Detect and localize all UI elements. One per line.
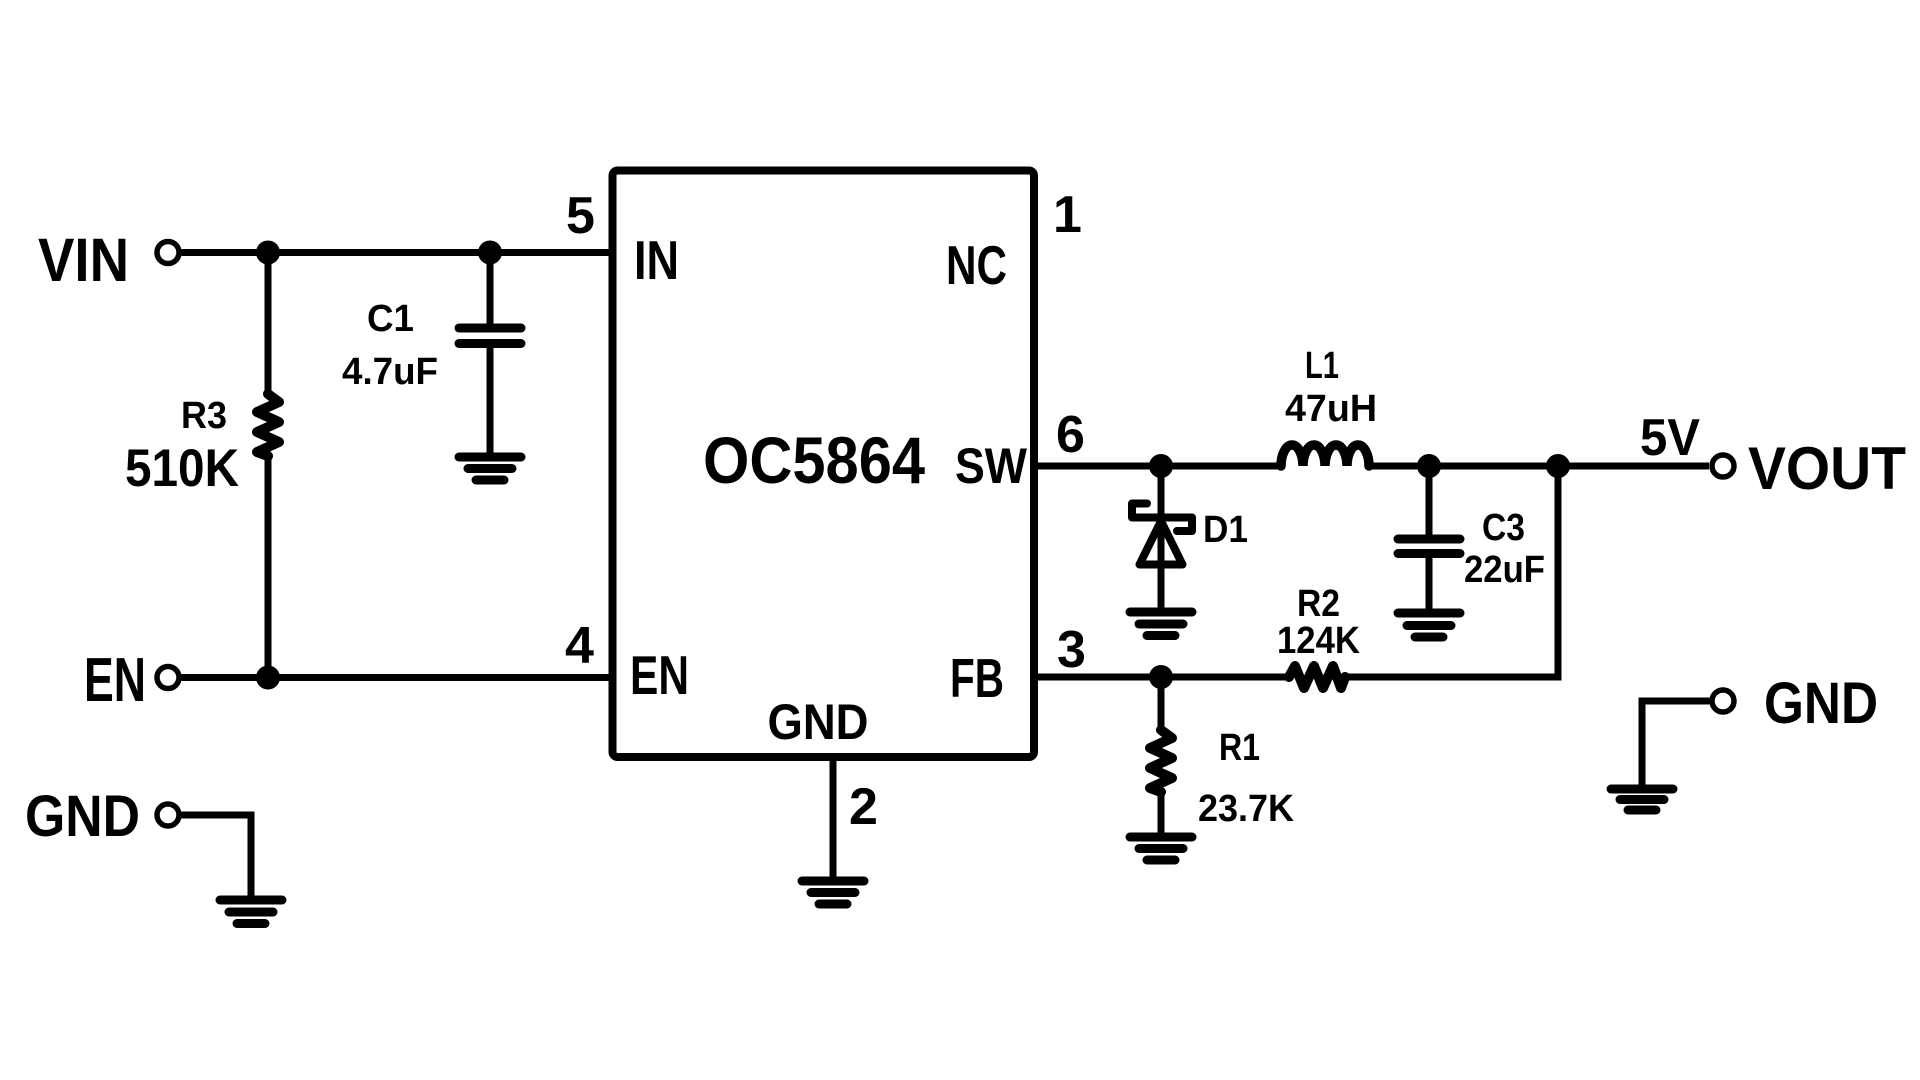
resistor R3 body [257,394,279,456]
terminal GND right [1712,690,1734,712]
svg-text:VIN: VIN [38,226,129,294]
svg-text:R1: R1 [1219,727,1260,769]
junction L1/C3 [1417,454,1441,478]
wire R2 to riser [1345,674,1558,681]
ground GND left [220,900,282,924]
svg-text:GND: GND [1764,671,1878,736]
junction VIN/C1 [478,241,502,265]
svg-text:6: 6 [1056,406,1085,464]
capacitor C1 [459,253,521,456]
terminal VIN [157,242,179,264]
svg-text:4.7uF: 4.7uF [342,351,438,393]
svg-text:EN: EN [84,646,146,715]
junction EN/R3 [256,666,280,690]
wire D1 lead [1158,466,1165,608]
svg-text:5V: 5V [1640,409,1700,467]
svg-text:47uH: 47uH [1285,388,1377,430]
wire GND right [1642,701,1710,786]
inductor L1 [1281,445,1369,466]
svg-text:1: 1 [1053,186,1082,244]
resistor R1 body [1150,730,1172,792]
wire C3 top lead [1426,466,1433,536]
junction FB/R1 [1149,665,1173,689]
diode D1 cathode bar with hooks [1132,504,1192,532]
ground C3 [1398,613,1460,637]
svg-text:510K: 510K [125,439,239,498]
wire R1 top lead [1158,677,1165,731]
capacitor C3 bottom plate [1398,549,1460,558]
svg-text:NC: NC [946,234,1007,296]
svg-text:3: 3 [1057,621,1086,679]
terminal VOUT [1712,455,1734,477]
wire SW pin 6 to L1 [1031,463,1281,470]
wire VIN to pin 5 IN [182,249,612,256]
junction VIN/R3 [256,241,280,265]
svg-text:FB: FB [950,647,1004,709]
wire C3 bottom lead [1426,557,1433,611]
resistor R2 body [1289,666,1345,688]
svg-text:C1: C1 [367,298,414,340]
wire riser to VOUT net [1555,466,1562,681]
wire C1 top lead [487,253,494,326]
diode D1 anode triangle [1140,521,1183,565]
svg-text:D1: D1 [1203,509,1248,551]
wire GND pin 2 stub [830,757,837,878]
wire GND left [182,815,252,897]
capacitor C1 bottom plate [459,339,521,348]
resistor R1 [1150,677,1172,834]
junction SW/D1 [1149,454,1173,478]
terminal EN [157,667,179,689]
capacitor C3 top plate [1398,535,1460,544]
ground R1 [1130,837,1192,860]
wire R3 top lead [265,253,272,396]
ground GND right [1611,789,1673,810]
svg-text:23.7K: 23.7K [1198,788,1295,830]
wire L1 to VOUT [1369,463,1709,470]
wire EN to pin 4 [182,674,612,681]
ground C1 [459,457,521,480]
wire R1 bottom lead [1158,791,1165,834]
svg-text:2: 2 [849,778,878,836]
ground IC pin 2 [802,881,864,904]
svg-text:L1: L1 [1305,345,1339,387]
ground D1 [1130,612,1192,636]
svg-text:GND: GND [768,694,869,750]
capacitor C3 [1398,466,1460,611]
svg-text:EN: EN [630,644,689,706]
svg-text:124K: 124K [1277,620,1361,662]
svg-text:22uF: 22uF [1464,549,1545,591]
svg-text:VOUT: VOUT [1748,435,1906,502]
diode D1 schottky [1132,466,1192,608]
svg-text:5: 5 [566,187,595,245]
svg-text:SW: SW [955,438,1028,494]
resistor R3 [257,253,279,678]
capacitor C1 top plate [459,324,521,333]
wire FB pin 3 to R2 [1031,674,1289,681]
wire R3 bottom lead [265,455,272,678]
svg-text:4: 4 [565,617,594,675]
svg-text:C3: C3 [1482,507,1525,549]
wire C1 bottom lead [487,347,494,455]
svg-text:R2: R2 [1297,583,1340,625]
svg-text:R3: R3 [181,395,227,437]
svg-text:OC5864: OC5864 [703,423,925,497]
op-amp U1 OC5864 box [613,171,1035,758]
svg-text:GND: GND [25,784,140,849]
svg-text:IN: IN [634,229,679,291]
terminal GND left [157,804,179,826]
junction VOUT/R2 [1546,454,1570,478]
